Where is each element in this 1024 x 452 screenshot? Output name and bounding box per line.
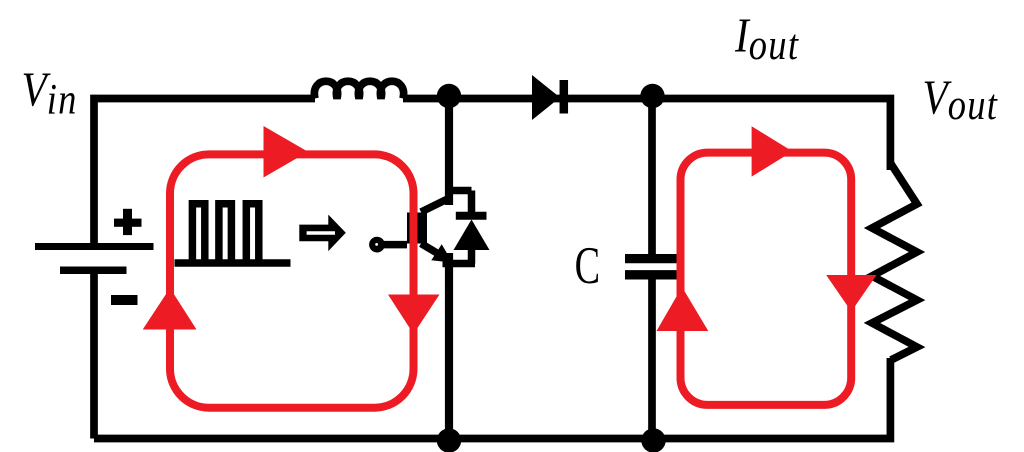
wire: capacitor bottom plate to node D (648, 280, 656, 439)
current loop 1 (input loop, red) (170, 154, 414, 407)
wire: node B to capacitor top plate (648, 99, 656, 255)
current loop 2 up arrow (657, 287, 709, 331)
wire: gate lead (384, 241, 407, 249)
PWM pulse-train symbol: baseline (175, 259, 291, 267)
wire: stub collector to antiparallel diode (449, 187, 472, 195)
svg-text:Vout: Vout (923, 70, 999, 128)
current loop 2 top arrow (752, 126, 793, 176)
wire: antiparallel diode branch bottom (468, 248, 476, 264)
svg-text:C: C (575, 236, 600, 295)
current loop 2 down arrow (826, 275, 876, 312)
capacitor C bottom plate (625, 270, 678, 279)
wire: antiparallel diode branch top (468, 191, 476, 216)
gate terminal circle (369, 237, 385, 253)
wire: left rail bottom (battery minus to bottom wire) (90, 272, 98, 439)
wire: stub diode bottom to emitter rail (443, 260, 476, 268)
PWM pulse 3 (246, 204, 258, 264)
current loop 1 top arrow (264, 126, 309, 178)
PWM pulse 1 (192, 204, 204, 264)
battery plate long (positive) (35, 243, 154, 250)
current loop 1 up arrow (143, 288, 197, 330)
antiparallel diode cathode bar (456, 212, 487, 220)
node C junction dot (437, 428, 461, 452)
current loop 1 down arrow (388, 295, 440, 335)
transistor Q (IGBT) base bar (407, 213, 427, 244)
transistor emitter arrowhead (431, 244, 452, 262)
svg-text:Iout: Iout (734, 8, 799, 68)
battery minus sign (111, 295, 138, 305)
battery plate short (negative) (60, 267, 127, 275)
wire: node A to transistor collector rail (445, 99, 453, 206)
gate drive block arrow (299, 215, 346, 252)
diode D cathode bar (560, 80, 569, 114)
diode D (series, on top wire): triangle (532, 75, 560, 120)
current loop 2 (output loop, red) (681, 153, 852, 405)
wire: top wire from inductor through node A and node B to top-right corner, down to resistor (403, 99, 890, 171)
resistor R load (zigzag) (872, 163, 917, 360)
inductor L (4 humps) (314, 81, 403, 98)
wire: transistor emitter rail to node C (445, 253, 453, 439)
transistor emitter diagonal (421, 244, 447, 260)
wire: right rail bottom + bottom wire (94, 358, 890, 439)
PWM pulse 2 (219, 204, 232, 264)
transistor collector diagonal (421, 198, 451, 213)
antiparallel diode triangle (454, 220, 490, 251)
svg-text:Vin: Vin (22, 62, 78, 123)
wire: left rail top + top wire from Vin corner to inductor (94, 99, 315, 244)
capacitor C top plate (625, 254, 678, 263)
node A junction dot (437, 84, 461, 108)
node D junction dot (641, 428, 665, 452)
node B junction dot (640, 84, 664, 108)
battery plus sign (114, 209, 142, 235)
